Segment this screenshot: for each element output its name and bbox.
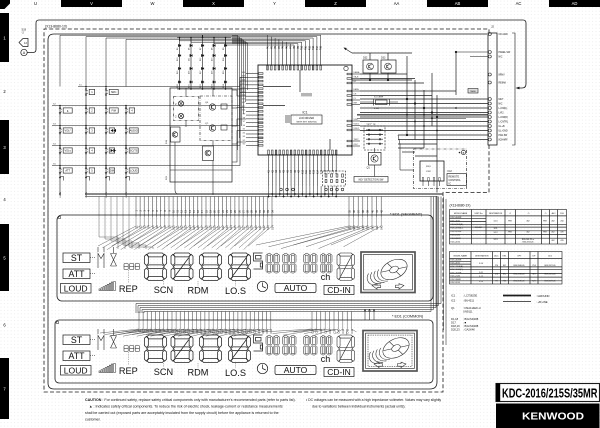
key switch row4 col1 (59, 147, 61, 153)
svg-text:S30: S30 (255, 225, 258, 230)
channel digit com (337, 335, 355, 363)
diode matrix D5-D24 (177, 37, 245, 90)
small digit pair 3 com (304, 336, 310, 356)
svg-text:S25: S25 (234, 225, 237, 230)
svg-text:D14: D14 (223, 58, 225, 61)
stereo glyph com (98, 329, 117, 350)
connector pin L-R2 (488, 111, 491, 114)
IC1 internal shade traces (263, 70, 330, 150)
small digit pair 3 seg (304, 254, 310, 274)
svg-text:D10: D10 (177, 58, 179, 61)
svg-text:D6: D6 (188, 48, 190, 50)
illumination block outline (170, 88, 232, 182)
svg-text:TEST: TEST (354, 139, 360, 141)
indicator AUTO box seg (275, 284, 316, 293)
svg-text:D8: D8 (211, 48, 213, 50)
svg-text:D24: D24 (223, 84, 225, 87)
lamp box dash-dot D1 D2 (174, 97, 199, 121)
corner wedge (0, 0, 10, 9)
ED1 segment pin labels (134, 209, 383, 230)
svg-text:DESTINATION: DESTINATION (475, 254, 489, 257)
svg-text:D17: D17 (200, 71, 202, 74)
svg-text:KDC-4046R: KDC-4046R (451, 217, 462, 219)
svg-text:MODEL NAME: MODEL NAME (454, 212, 468, 215)
svg-text:IC2: IC2 (448, 169, 453, 173)
svg-text:D16: D16 (188, 71, 190, 74)
svg-text:CD-GND: CD-GND (499, 34, 509, 36)
svg-text:MODEL NAME: MODEL NAME (454, 254, 468, 257)
svg-text:DESTINATION: DESTINATION (489, 212, 503, 215)
svg-text:K16: K16 (324, 169, 327, 174)
svg-text:D32: D32 (363, 57, 368, 60)
remote unit dash-dot box (414, 149, 467, 189)
svg-text:PAN 8W: PAN 8W (499, 134, 508, 137)
svg-text:VOLv: VOLv (64, 149, 71, 153)
svg-text:ACC: ACC (494, 254, 499, 257)
svg-text:FE8: FE8 (543, 221, 546, 223)
key switch row5 col3 (105, 167, 107, 173)
svg-text:S20: S20 (214, 225, 217, 230)
connector pin N/C (488, 102, 491, 105)
arrow off-page from D32 bus (345, 49, 352, 54)
display panel ED1 segment outline (57, 215, 433, 301)
connector pin CD-GND (488, 33, 491, 36)
svg-text:• DC voltages can be measured: • DC voltages can be measured with a hig… (306, 398, 441, 402)
svg-text:D22: D22 (200, 84, 202, 87)
lamp D2 (178, 113, 183, 118)
transistor Q7 (209, 125, 215, 131)
clock icon seg (257, 281, 267, 291)
svg-text:270: 270 (495, 265, 498, 267)
svg-text:: BU4211: : BU4211 (463, 299, 475, 303)
key switch row3 col3 (105, 127, 107, 133)
svg-text:ch: ch (321, 354, 331, 364)
key switch row3 col1 (59, 127, 61, 133)
svg-text:D7: D7 (200, 48, 202, 50)
svg-text:AV-I: AV-I (552, 212, 556, 215)
seven segment digit 2 seg (171, 253, 193, 281)
board outline X13-8680-1X dashed (44, 29, 489, 392)
svg-text:D20,23: D20,23 (451, 328, 460, 332)
svg-text:P14: P14 (316, 45, 319, 50)
seven segment digit 2 com (171, 335, 193, 363)
svg-text:▲ : Indicates safety critical: ▲ : Indicates safety critical components… (89, 405, 283, 409)
svg-text:D33: D33 (381, 57, 386, 60)
key switch row1 col2 (85, 89, 87, 95)
svg-text:RDM: RDM (188, 286, 209, 296)
indicator LOUD box com (61, 366, 92, 376)
svg-text:KEY DETECTION SW: KEY DETECTION SW (359, 179, 384, 182)
key switch row3 col2 (85, 127, 87, 133)
svg-text:DM: DM (110, 169, 114, 173)
seven segment digit 3 com (200, 335, 222, 363)
option jumper box OPT (364, 126, 385, 150)
svg-text:SCN: SCN (154, 285, 173, 295)
legend +B line (503, 301, 531, 303)
indicator ST box com (63, 335, 90, 345)
svg-text:ATT: ATT (69, 351, 86, 361)
svg-text:470: 470 (560, 232, 563, 234)
svg-text:D13: D13 (211, 58, 213, 61)
svg-text:D21: D21 (188, 84, 190, 87)
wire bus IC1 to connector (360, 51, 488, 192)
svg-text:B69-1921-05: B69-1921-05 (545, 274, 556, 276)
svg-text:: DSA114EK or: : DSA114EK or (463, 306, 481, 310)
svg-text:TA/BU: TA/BU (470, 90, 476, 93)
svg-text:VDD1: VDD1 (354, 123, 360, 125)
svg-text:K19: K19 (335, 169, 338, 174)
key switch row2 col1 (59, 107, 61, 113)
transistor Q5 box (171, 127, 181, 142)
key switch row2 col2 (85, 107, 87, 113)
svg-text:P10: P10 (301, 45, 304, 50)
svg-text:SCN: SCN (154, 367, 173, 377)
svg-text:S9: S9 (243, 113, 245, 115)
svg-text:462: 462 (526, 232, 529, 234)
svg-text:462: 462 (526, 221, 529, 223)
volume bargraph seg (99, 282, 115, 291)
svg-text:shall be carried out (exposed: shall be carried out (exposed parts are … (85, 411, 279, 415)
clock icon com (257, 363, 267, 373)
svg-text:D18,19: D18,19 (451, 324, 460, 328)
svg-text:: GA2X4K: : GA2X4K (463, 328, 475, 332)
svg-text:KDC-2016: KDC-2016 (451, 241, 461, 243)
transistor Q1 (369, 153, 382, 166)
svg-text:L-CNTRL: L-CNTRL (499, 122, 509, 124)
key switch row4 col2 (85, 147, 87, 153)
svg-text:B30-1945-05: B30-1945-05 (514, 281, 525, 283)
indicator ST box seg (63, 253, 90, 263)
junction P-CONT wire (456, 51, 488, 53)
svg-text:KDC-2016R: KDC-2016R (451, 231, 462, 233)
small digit pair 4 seg (321, 254, 326, 274)
key switch row4 col4 (125, 147, 127, 153)
svg-text:: GROUND: : GROUND (536, 294, 549, 298)
svg-text:REP: REP (119, 284, 138, 294)
svg-text:IC1: IC1 (451, 294, 456, 298)
svg-text:IC: IC (449, 183, 452, 186)
svg-text:K11: K11 (305, 169, 308, 174)
svg-text:CAUTION : For continued safety: CAUTION : For continued safety, replace … (85, 398, 296, 402)
key switch row3 col4 (125, 127, 127, 133)
svg-text:KDC-215S(A): KDC-215S(A) (451, 265, 464, 268)
seven segment digit 4 com (229, 335, 251, 363)
small digit pair 2 com (283, 336, 289, 356)
wire fan IC1 to ED1 segment pins (268, 186, 337, 197)
svg-text:LOUD: LOUD (64, 366, 88, 376)
cd disc icon segment (361, 252, 415, 293)
svg-text:KDC-2146: KDC-2146 (451, 276, 461, 278)
op IC2 remote control (420, 161, 444, 181)
svg-text:D11: D11 (188, 58, 190, 61)
left elbow wires into ED1 segment (99, 197, 153, 250)
svg-text:S26: S26 (238, 225, 241, 230)
indicator AUTO box com (275, 366, 316, 375)
svg-text:AUTO: AUTO (284, 283, 308, 293)
key matrix switch grid (52, 85, 160, 198)
connector pin ILL+B (488, 125, 491, 128)
connector pin RE8A8 (488, 81, 491, 84)
svg-text:* ED1 (COMMON): * ED1 (COMMON) (392, 315, 424, 319)
svg-text:OSC: OSC (354, 144, 359, 146)
key switch row5 col1 (59, 167, 61, 173)
left ruler grid labels (0, 13, 9, 419)
seven segment digit 1 com (145, 335, 167, 363)
ED1 segment pin ticks group1 (136, 197, 381, 218)
svg-text:YD4: YD4 (532, 265, 536, 267)
svg-text:D19: D19 (223, 71, 225, 74)
svg-text:KDC-35MR: KDC-35MR (451, 238, 462, 240)
svg-text:: B3L/SD188: : B3L/SD188 (463, 317, 479, 321)
svg-text:S34: S34 (271, 225, 274, 230)
svg-text:B: B (463, 151, 465, 155)
svg-text:MUT: MUT (499, 99, 505, 101)
svg-text:Q1: Q1 (451, 306, 455, 310)
svg-text:: B3L/SD188: : B3L/SD188 (463, 324, 479, 328)
svg-text:FE8: FE8 (508, 232, 511, 234)
svg-text:customer.: customer. (85, 418, 101, 422)
svg-text:FE8: FE8 (543, 232, 546, 234)
parts note list (451, 294, 481, 332)
svg-text:D23: D23 (211, 84, 213, 87)
svg-text:KDC-35MR: KDC-35MR (451, 279, 462, 281)
svg-text:L-OW(L): L-OW(L) (499, 108, 508, 110)
node B circled (461, 150, 465, 154)
model title box KDC-2016/215S/35MR (496, 384, 600, 402)
svg-text:K13: K13 (313, 169, 316, 174)
transistor Q2 box (203, 146, 214, 161)
connector pin ILL-GND (488, 129, 491, 132)
svg-text:S6: S6 (243, 125, 245, 127)
small digit pair 1 seg (266, 254, 272, 274)
svg-text:LCD DRIVER: LCD DRIVER (299, 117, 314, 120)
svg-text:S4: S4 (243, 132, 245, 134)
svg-text:RE8A8: RE8A8 (499, 82, 507, 85)
svg-text:DAMA: DAMA (354, 71, 360, 74)
svg-text:8CHARF: 8CHARF (499, 139, 509, 142)
node A circled (21, 49, 27, 55)
channel digit seg (337, 253, 355, 281)
svg-text:INH: INH (354, 102, 358, 104)
connector pin N/C (488, 55, 491, 58)
svg-text:270: 270 (495, 274, 498, 276)
arrow stubs above ED1 common (364, 309, 375, 320)
svg-text:462: 462 (551, 232, 554, 234)
svg-text:WITH KEY SW(T94): WITH KEY SW(T94) (297, 121, 317, 123)
small digit pair 1 com (266, 336, 272, 356)
IC1 right pins (347, 71, 360, 147)
svg-text:ST: ST (71, 253, 83, 263)
svg-text:P12: P12 (308, 45, 311, 50)
svg-text:S7: S7 (243, 121, 245, 123)
ground bus horizontal (85, 193, 443, 195)
svg-text:DATA: DATA (354, 88, 360, 91)
svg-text:T3: T3 (495, 281, 497, 283)
transistor D33 box (381, 60, 396, 73)
transistor Q6 (209, 104, 215, 110)
svg-text:D12: D12 (200, 58, 202, 61)
dc voltage note (306, 398, 441, 409)
svg-text:KDC-215S(A): KDC-215S(A) (451, 223, 464, 226)
wire bundle left of IC1 (232, 36, 248, 151)
svg-text:ch: ch (321, 272, 331, 282)
wire bundle key matrix to IC1 top (60, 35, 321, 87)
svg-text:K10: K10 (301, 169, 304, 174)
svg-text:* ED1 (SEGMENT): * ED1 (SEGMENT) (390, 213, 423, 217)
svg-text:D9: D9 (223, 48, 225, 50)
destination table 2 (450, 252, 563, 285)
svg-text:B30-146-76 or: B30-146-76 or (522, 238, 534, 241)
svg-text:D17: D17 (451, 321, 456, 325)
driver box dash-dot Q6 Q7 (200, 96, 232, 141)
arrow symbol to S19 (19, 39, 28, 47)
key switch row2 col3 (105, 107, 107, 113)
svg-text:X13-869: X13-869 (475, 227, 483, 229)
svg-text:S2: S2 (243, 140, 245, 142)
svg-text:VDD2: VDD2 (354, 128, 360, 130)
svg-text:AD: AD (572, 1, 578, 6)
wires IC2 (400, 169, 414, 171)
wires Q1 (374, 165, 376, 177)
svg-text:S33: S33 (267, 225, 270, 230)
svg-text:AB: AB (455, 1, 461, 6)
half digit 1 com (254, 335, 263, 351)
indicator CD-IN box com (324, 368, 354, 377)
svg-text:AA: AA (394, 1, 400, 6)
svg-text:S28: S28 (247, 225, 250, 230)
svg-text:250: 250 (560, 221, 563, 223)
svg-text:N/O: N/O (532, 281, 536, 283)
svg-text:ST: ST (71, 335, 83, 345)
caution separator note (85, 398, 296, 422)
connector pin L-OW(L) (488, 107, 491, 110)
svg-text:P15: P15 (320, 45, 323, 50)
svg-text:RDM: RDM (188, 368, 209, 378)
ED1 common pin ticks (139, 312, 352, 321)
svg-text:470: 470 (560, 240, 563, 242)
IC1 bottom pins (268, 150, 339, 186)
svg-text:462: 462 (551, 240, 554, 242)
svg-text:CD-IN: CD-IN (327, 285, 351, 295)
svg-text:S23: S23 (226, 225, 229, 230)
svg-text:LOUD: LOUD (64, 284, 88, 294)
svg-text:SRC: SRC (111, 90, 117, 94)
svg-text:SC/TS: SC/TS (130, 149, 138, 153)
kenwood logo box (496, 404, 600, 428)
label box TA-BU (468, 89, 478, 94)
wire drops into ED1 common (100, 320, 357, 336)
svg-text:KDC-2146: KDC-2146 (451, 234, 461, 236)
wire bundle to ED1 common (136, 197, 446, 346)
connector CN901 body (488, 33, 497, 145)
svg-text:UNIT No.: UNIT No. (475, 213, 484, 215)
svg-text:B30-1946-05: B30-1946-05 (514, 265, 525, 267)
svg-text:(X13-8680-1X): (X13-8680-1X) (45, 25, 67, 29)
resistor array dashed box (323, 171, 346, 186)
svg-text:LO.S: LO.S (225, 286, 246, 296)
svg-text:N/C: N/C (499, 57, 503, 59)
svg-text:B30-1913-05: B30-1913-05 (523, 242, 534, 244)
svg-text:LOUD: LOUD (130, 169, 137, 173)
small digit pair 2 seg (283, 254, 289, 274)
svg-text:X1 CERF: X1 CERF (374, 97, 384, 99)
svg-text:FE8: FE8 (508, 221, 511, 223)
key switch row1 col3 (105, 89, 107, 95)
svg-text:KDC-2016: KDC-2016 (451, 282, 461, 284)
connector pin PAN 8W (488, 134, 491, 137)
svg-text:D18: D18 (211, 71, 213, 74)
volume bargraph com (99, 364, 115, 373)
svg-text:AUTO: AUTO (284, 365, 308, 375)
svg-text:B69-1927-05: B69-1927-05 (545, 265, 556, 267)
svg-text:: +B LINE: : +B LINE (536, 300, 548, 304)
transistor D32 box (363, 60, 378, 73)
crystal X1 (376, 100, 388, 105)
svg-text:K17: K17 (328, 169, 331, 174)
label KEY DETECTION SW (354, 177, 388, 183)
svg-text:K12: K12 (309, 169, 312, 174)
svg-text:D5: D5 (177, 48, 179, 50)
indicator ATT box seg (63, 269, 90, 279)
svg-text:VDD: VDD (354, 119, 359, 121)
svg-text:K14: K14 (316, 169, 319, 174)
svg-text:PANEL SW: PANEL SW (499, 51, 511, 54)
svg-text:C43: C43 (351, 328, 354, 333)
lamp D1 (178, 101, 183, 106)
svg-text:B30-1930-05: B30-1930-05 (514, 274, 525, 276)
svg-text:KDC-2016(C): KDC-2016(C) (451, 228, 463, 230)
indicator LOUD box seg (61, 284, 92, 294)
svg-text:▲: ▲ (66, 110, 69, 113)
svg-text:FE8: FE8 (503, 281, 506, 283)
key switch row4 col3 (105, 147, 107, 153)
svg-text:S1: S1 (243, 144, 245, 146)
IC1 top pins (267, 45, 323, 70)
svg-text:KDC-4015: KDC-4015 (451, 263, 461, 265)
svg-text:AUDIO: AUDIO (130, 129, 138, 133)
connector pin L-OW(R) (488, 116, 491, 119)
svg-text:V: V (90, 1, 93, 6)
svg-text:F/M: F/M (111, 109, 115, 113)
svg-text:J2: J2 (491, 25, 494, 29)
svg-text:IC1: IC1 (303, 111, 308, 115)
svg-text:IC2: IC2 (451, 299, 456, 303)
svg-text:ILL-GND: ILL-GND (499, 131, 508, 133)
harness bracket (512, 33, 515, 145)
svg-text:U: U (34, 1, 37, 6)
svg-text:KDC-2016R: KDC-2016R (451, 272, 462, 274)
svg-text:ATT: ATT (69, 269, 86, 279)
connector pin 8RNV (488, 73, 491, 76)
svg-text:(X13-8680-1X): (X13-8680-1X) (450, 204, 471, 208)
stereo glyph seg (98, 247, 117, 268)
svg-text:KDC-4046R: KDC-4046R (451, 259, 462, 261)
svg-text:: LC75823E: : LC75823E (463, 294, 477, 298)
svg-text:L-OW(R): L-OW(R) (499, 117, 508, 119)
small digit pair 4 com (321, 336, 326, 356)
seven segment digit 1 seg (145, 253, 167, 281)
svg-text:S3: S3 (243, 136, 245, 138)
ED1 common pin labels (138, 328, 354, 333)
svg-text:Y: Y (273, 1, 276, 6)
svg-text:K18: K18 (331, 169, 334, 174)
svg-text:N/C: N/C (499, 104, 503, 106)
frequency small digits com (124, 346, 139, 352)
indicator ATT box com (63, 351, 90, 361)
svg-text:CD-IN: CD-IN (327, 367, 351, 377)
svg-text:P11: P11 (305, 45, 308, 50)
svg-text:L-R2: L-R2 (499, 113, 505, 115)
